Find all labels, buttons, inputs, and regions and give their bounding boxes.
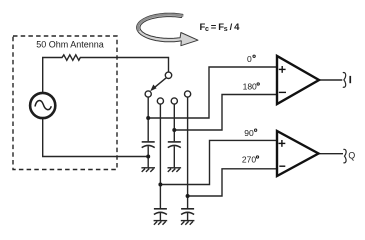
svg-text:270: 270	[242, 155, 256, 165]
svg-text:180: 180	[243, 81, 257, 91]
svg-text:Q: Q	[348, 150, 355, 160]
svg-text:90: 90	[244, 128, 254, 138]
svg-text:0: 0	[247, 54, 252, 64]
svg-text:50 Ohm Antenna: 50 Ohm Antenna	[36, 39, 104, 49]
svg-text:Fc = Fs / 4: Fc = Fs / 4	[200, 22, 241, 33]
